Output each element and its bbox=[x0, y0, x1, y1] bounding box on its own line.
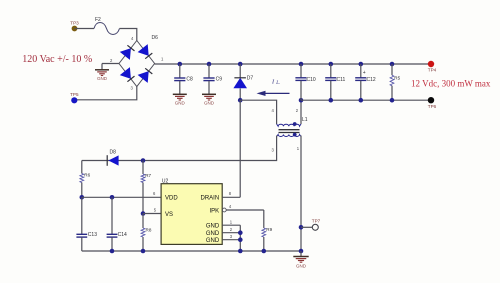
VS wire bbox=[141, 211, 161, 216]
svg-text:F2: F2 bbox=[95, 17, 101, 23]
fuse F2 bbox=[94, 17, 120, 35]
svg-text:D8: D8 bbox=[110, 149, 117, 155]
test point TP7 bbox=[299, 219, 321, 231]
resistor R9 bbox=[262, 210, 273, 251]
freewheeling diode D7 bbox=[233, 62, 253, 100]
ground (output) bbox=[293, 249, 308, 269]
wire fuse to bridge top bbox=[120, 29, 137, 41]
svg-text:C14: C14 bbox=[118, 232, 127, 238]
test point TP4 bbox=[428, 61, 437, 73]
resistor R8 bbox=[141, 214, 152, 252]
svg-text:GND: GND bbox=[206, 231, 220, 237]
top rail (rectified bus to output +) bbox=[155, 63, 431, 65]
wire bridge left to ground bbox=[102, 63, 119, 65]
resistor R5 bbox=[390, 62, 401, 103]
bridge diode lower-right bbox=[138, 71, 149, 83]
DRAIN pin wire (pin 8) bbox=[222, 191, 240, 197]
wire D7 anode to transformer pin 4 bbox=[240, 100, 276, 124]
node drain/D7 anode junction bbox=[238, 98, 243, 103]
capacitor C8 bbox=[174, 62, 193, 95]
bridge rectifier D6 outline bbox=[119, 35, 158, 87]
svg-text:C11: C11 bbox=[337, 77, 346, 83]
capacitor C13 bbox=[76, 197, 97, 251]
capacitor C9 bbox=[203, 62, 222, 95]
resistor R6 bbox=[80, 161, 91, 198]
svg-text:C13: C13 bbox=[88, 232, 97, 238]
svg-text:TP6: TP6 bbox=[428, 104, 437, 109]
svg-text:TP4: TP4 bbox=[428, 68, 437, 73]
svg-text:+: + bbox=[363, 70, 366, 76]
svg-text:GND: GND bbox=[204, 101, 215, 106]
svg-text:C10: C10 bbox=[307, 77, 316, 83]
svg-text:DRAIN: DRAIN bbox=[201, 196, 220, 202]
wire L1 pin1 down to ground junction bbox=[300, 136, 302, 252]
test point TP3 bbox=[70, 20, 79, 31]
ground (C9) bbox=[202, 93, 216, 95]
node output return at L1 pin2 bbox=[299, 98, 304, 103]
capacitor C14 bbox=[107, 197, 127, 251]
svg-text:IPK: IPK bbox=[210, 208, 220, 214]
svg-text:GND: GND bbox=[97, 76, 108, 81]
IPK pin wire (pin 4) with bubble bbox=[222, 204, 263, 212]
bridge diode upper-right bbox=[138, 44, 149, 56]
test point TP6 bbox=[428, 97, 437, 109]
svg-text:TP7: TP7 bbox=[312, 219, 321, 224]
svg-text:GND: GND bbox=[206, 223, 220, 229]
svg-text:L1: L1 bbox=[302, 117, 308, 123]
svg-text:R6: R6 bbox=[84, 173, 90, 178]
GND pin 3 wire bbox=[222, 234, 240, 240]
bottom output rail bbox=[301, 99, 431, 101]
ground (C8) bbox=[173, 93, 187, 95]
svg-text:C12: C12 bbox=[367, 77, 376, 83]
svg-text:12 Vdc, 300 mW max: 12 Vdc, 300 mW max bbox=[411, 79, 491, 89]
svg-text:D7: D7 bbox=[247, 75, 254, 81]
wire transformer pin2 to output rail bbox=[300, 100, 302, 124]
capacitor C10 bbox=[295, 62, 315, 100]
svg-text:U2: U2 bbox=[162, 178, 169, 184]
bridge diode upper-left bbox=[120, 48, 131, 60]
svg-text:TP5: TP5 bbox=[70, 92, 79, 97]
capacitor C12 (polarized) bbox=[355, 62, 376, 103]
wire drain vertical bbox=[239, 100, 241, 197]
ground rail bbox=[82, 249, 301, 254]
svg-text:C8: C8 bbox=[186, 76, 193, 82]
wire L1 pin3 down and left to D8 bbox=[82, 136, 277, 161]
IC U2 body bbox=[161, 178, 222, 244]
svg-text:L.: L. bbox=[275, 81, 280, 86]
bridge diode lower-left bbox=[120, 67, 131, 79]
svg-text:R8: R8 bbox=[146, 227, 152, 232]
GND pin 1 wire bbox=[222, 219, 240, 225]
node R7 junction on D8 wire bbox=[141, 158, 146, 163]
svg-text:120 Vac +/- 10 %: 120 Vac +/- 10 % bbox=[22, 54, 92, 65]
GND pin 2 wire bbox=[222, 227, 240, 233]
svg-text:R5: R5 bbox=[394, 75, 400, 80]
diode D8 bbox=[107, 149, 118, 166]
svg-text:R9: R9 bbox=[266, 227, 272, 232]
VDD wire bbox=[80, 195, 162, 200]
ground (bridge input) bbox=[95, 64, 109, 82]
svg-text:TP3: TP3 bbox=[70, 20, 79, 25]
svg-text:VDD: VDD bbox=[165, 196, 178, 202]
svg-text:C9: C9 bbox=[216, 76, 223, 82]
test point TP5 bbox=[70, 92, 79, 103]
svg-text:VS: VS bbox=[165, 212, 173, 218]
resistor R7 bbox=[141, 161, 151, 214]
GND pins vertical bbox=[238, 225, 243, 251]
wire TP3 to fuse bbox=[75, 28, 95, 30]
wire bridge bottom to TP5 bbox=[75, 87, 137, 100]
svg-text:GND: GND bbox=[206, 238, 220, 244]
svg-text:R7: R7 bbox=[145, 173, 151, 178]
svg-text:D6: D6 bbox=[152, 35, 159, 41]
inductor current annotation IL bbox=[257, 78, 290, 96]
capacitor C11 bbox=[325, 62, 345, 103]
svg-text:GND: GND bbox=[296, 264, 307, 269]
svg-text:GND: GND bbox=[175, 101, 186, 106]
inductor L1 bbox=[277, 117, 308, 137]
